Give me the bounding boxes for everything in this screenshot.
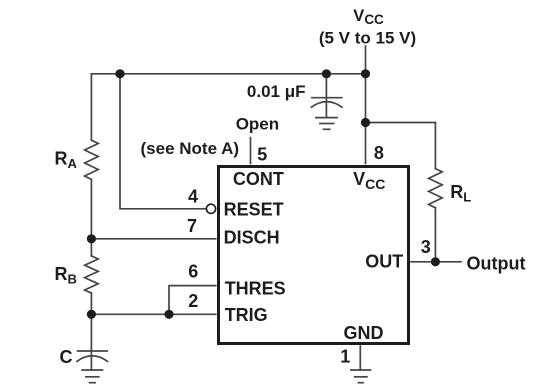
svg-text:5: 5	[257, 145, 267, 165]
svg-text:6: 6	[188, 261, 198, 281]
svg-text:0.01 μF: 0.01 μF	[247, 82, 306, 101]
svg-text:GND: GND	[344, 323, 384, 343]
svg-text:TRIG: TRIG	[225, 305, 268, 325]
svg-text:THRES: THRES	[225, 278, 286, 298]
svg-text:C: C	[60, 347, 73, 367]
svg-text:4: 4	[188, 187, 198, 207]
svg-text:2: 2	[188, 291, 198, 311]
svg-text:7: 7	[187, 216, 197, 236]
svg-text:Open: Open	[236, 115, 279, 134]
svg-text:(5 V to 15 V): (5 V to 15 V)	[319, 28, 416, 47]
svg-text:CONT: CONT	[233, 169, 284, 189]
svg-text:(see Note A): (see Note A)	[141, 139, 240, 158]
svg-text:RESET: RESET	[224, 200, 284, 220]
svg-text:Output: Output	[467, 254, 526, 274]
svg-text:3: 3	[421, 237, 431, 257]
svg-text:8: 8	[374, 143, 384, 163]
svg-text:1: 1	[340, 346, 350, 366]
svg-text:OUT: OUT	[365, 252, 403, 272]
svg-text:DISCH: DISCH	[224, 227, 280, 247]
